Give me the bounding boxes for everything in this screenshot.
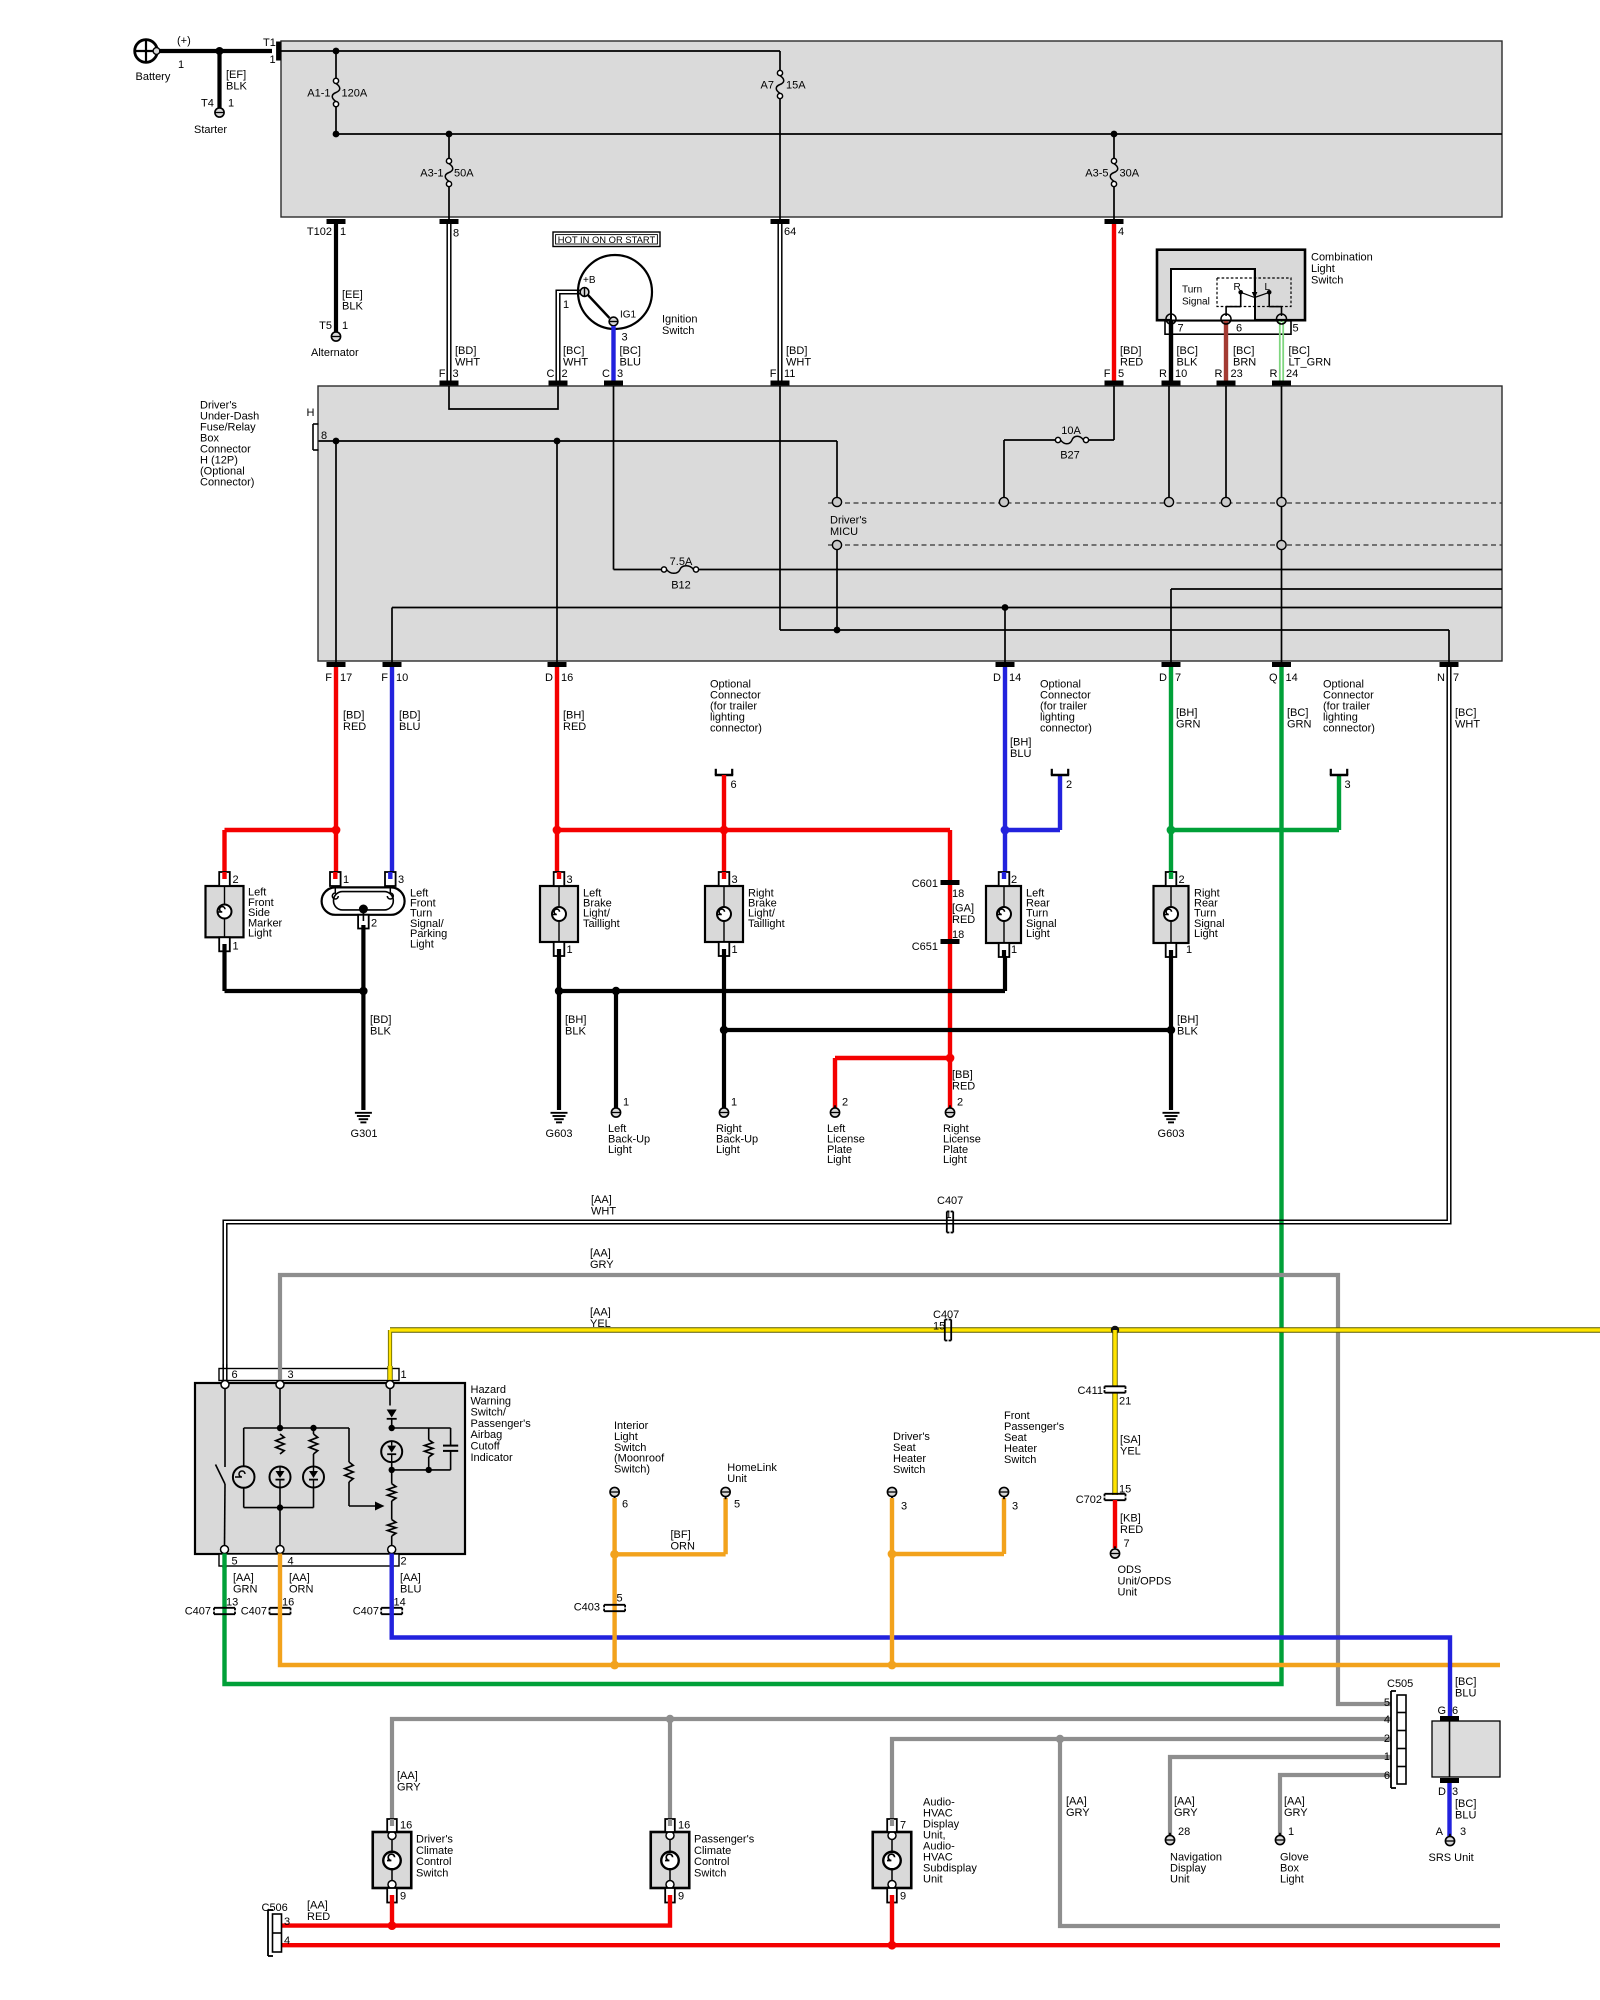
wire [BD] WHT F11 [777,224,779,381]
svg-text:[BD]: [BD] [786,345,807,357]
svg-text:RED: RED [1120,1524,1143,1536]
diode D3 [387,1410,397,1418]
hazard switch connector top [219,1369,399,1381]
svg-text:Light: Light [827,1154,851,1166]
connector terminal 4 [1105,219,1124,224]
svg-text:LT_GRN: LT_GRN [1289,357,1332,369]
svg-text:3: 3 [732,874,738,886]
svg-text:[BD]: [BD] [343,710,364,722]
svg-text:C601: C601 [912,878,938,890]
svg-text:1: 1 [401,1369,407,1381]
svg-text:Q: Q [1269,672,1278,684]
left front turn signal/parking light [322,887,405,914]
svg-text:C407: C407 [241,1606,267,1618]
svg-text:Combination: Combination [1311,252,1373,264]
svg-text:Ignition: Ignition [662,314,697,326]
svg-text:ORN: ORN [289,1584,314,1596]
svg-text:GRY: GRY [590,1259,614,1271]
svg-text:16: 16 [282,1597,294,1609]
wire R24 to Q14 [1281,386,1283,662]
wire [AA] ORN pin4 [278,1554,282,1567]
svg-text:[BH]: [BH] [1010,737,1031,749]
wire [AA] GRY to right edge [1060,1739,1500,1926]
wire D14/F10 branch [392,607,1502,609]
wire [BC] BLU IG1 [611,326,615,381]
svg-text:[AA]: [AA] [397,1770,418,1782]
wire [BD] BLK ground G301 [361,925,365,1110]
svg-text:2: 2 [401,1556,407,1568]
transistor collector-emitter [391,1501,393,1520]
svg-text:18: 18 [952,929,964,941]
svg-text:2: 2 [1179,874,1185,886]
svg-text:SRS Unit: SRS Unit [1429,1852,1474,1864]
connector F 5 [1105,381,1124,386]
svg-text:Light: Light [943,1154,967,1166]
connector T102 1 [327,219,346,224]
svg-text:C407: C407 [353,1606,379,1618]
svg-text:[BD]: [BD] [455,345,476,357]
hazard warning switch box [195,1383,465,1554]
left license plate light [830,1108,839,1117]
SRS coupler box [1432,1721,1500,1777]
svg-text:Starter: Starter [194,124,227,136]
svg-text:R: R [1270,368,1278,380]
svg-text:Passenger's: Passenger's [694,1834,755,1846]
connector C407 1 [946,1212,948,1233]
wire [BD] RED F5 [1112,224,1116,381]
wire red to license lights [948,830,952,880]
svg-text:6: 6 [1452,1705,1458,1717]
svg-text:6: 6 [232,1369,238,1381]
svg-text:3: 3 [567,874,573,886]
connector F 11 [771,381,790,386]
svg-text:BLU: BLU [1455,1810,1476,1822]
svg-text:2: 2 [562,368,568,380]
svg-text:50A: 50A [454,168,474,180]
svg-text:2: 2 [1384,1733,1390,1745]
LED D1 [270,1467,291,1488]
svg-text:13: 13 [226,1597,238,1609]
connector shell 7-6-5 [1165,321,1291,334]
svg-text:3: 3 [1012,1501,1018,1513]
svg-text:Climate: Climate [694,1845,731,1857]
svg-text:BLU: BLU [620,357,641,369]
svg-text:9: 9 [678,1891,684,1903]
optional connector 6 [715,774,733,777]
wire [BC] WHT pin 6 stub [222,1364,224,1381]
svg-text:T5: T5 [319,320,332,332]
svg-text:1: 1 [342,320,348,332]
connector F 3 [440,381,459,386]
svg-text:1: 1 [340,226,346,238]
wire [BB] RED [948,944,952,1058]
wire [BF] ORN [612,1498,616,1665]
connector R 10 [1162,381,1181,386]
svg-text:1: 1 [567,944,573,956]
svg-text:120A: 120A [342,88,368,100]
svg-text:Driver's: Driver's [416,1834,453,1846]
connector F 10 [383,662,402,667]
wire to D16 [556,441,558,662]
svg-text:BLK: BLK [565,1026,586,1038]
svg-text:15A: 15A [786,80,806,92]
svg-text:3: 3 [453,368,459,380]
svg-text:G: G [1437,1705,1446,1717]
wire yellow pin 1 stub [387,1366,392,1380]
wire right brake ground [722,956,726,1108]
svg-text:3: 3 [284,1916,290,1928]
svg-text:3: 3 [1452,1786,1458,1798]
LED D4 [381,1441,402,1462]
svg-text:[BB]: [BB] [952,1069,973,1081]
hazard pin circles top [221,1381,229,1389]
svg-text:3: 3 [622,332,628,344]
wire R23 to MICU [1225,386,1227,497]
wire to F17 [335,441,337,662]
svg-text:C403: C403 [574,1602,600,1614]
svg-text:Passenger's: Passenger's [471,1418,532,1430]
left rear turn signal light [986,886,1021,943]
svg-text:Light: Light [716,1144,740,1156]
combination light switch [1157,250,1305,321]
svg-text:F: F [439,368,446,380]
svg-text:Light: Light [1311,263,1335,275]
connector D 3 [1440,1778,1459,1783]
wire red to right brake [722,775,726,878]
svg-text:[BC]: [BC] [1177,345,1198,357]
svg-text:28: 28 [1178,1826,1190,1838]
svg-text:9: 9 [900,1891,906,1903]
turn signal switch block [1171,269,1255,321]
svg-text:G603: G603 [546,1128,573,1140]
svg-text:[AA]: [AA] [591,1194,612,1206]
svg-text:1: 1 [270,54,276,66]
wire [GA] RED [948,885,952,939]
driver's climate control switch [373,1832,412,1888]
svg-text:18: 18 [952,888,964,900]
fuse A3-1 50A [446,131,453,138]
svg-text:Airbag: Airbag [471,1429,503,1441]
svg-text:5: 5 [1293,323,1299,335]
svg-text:GRN: GRN [233,1584,258,1596]
node yellow junction [1111,1326,1119,1334]
svg-text:GRN: GRN [1287,719,1312,731]
svg-text:[BC]: [BC] [1455,707,1476,719]
wire [BD] RED F17 [334,667,338,878]
svg-text:7: 7 [1178,323,1184,335]
svg-text:Cutoff: Cutoff [471,1441,501,1453]
svg-text:D: D [545,672,553,684]
svg-text:4: 4 [1384,1714,1390,1726]
svg-text:Alternator: Alternator [311,347,359,359]
wire R contact to pin 6 [1240,294,1242,307]
battery [135,40,158,63]
svg-text:YEL: YEL [590,1318,611,1330]
connector D 7 [1162,662,1181,667]
svg-text:R: R [1159,368,1167,380]
svg-text:RED: RED [343,721,366,733]
svg-text:Climate: Climate [416,1845,453,1857]
svg-text:3: 3 [901,1501,907,1513]
svg-text:2: 2 [233,874,239,886]
svg-text:A: A [1436,1826,1444,1838]
driver's MICU dashed [828,502,1502,504]
svg-text:3: 3 [617,368,623,380]
svg-text:Switch: Switch [694,1867,726,1879]
MICU circles [832,497,841,506]
svg-text:WHT: WHT [455,357,480,369]
svg-text:BLK: BLK [342,301,363,313]
svg-text:Light: Light [410,938,434,950]
ground G603 right [1163,1112,1180,1114]
capacitor C1 [450,1428,452,1446]
svg-text:Indicator: Indicator [471,1452,514,1464]
svg-text:Switch: Switch [1311,275,1343,287]
svg-text:Taillight: Taillight [583,918,620,930]
svg-text:11: 11 [784,368,795,380]
svg-text:Unit: Unit [727,1473,747,1485]
svg-text:5: 5 [232,1556,238,1568]
connector F 17 [327,662,346,667]
svg-text:Control: Control [416,1856,451,1868]
svg-text:Signal: Signal [1182,297,1210,308]
svg-text:Unit: Unit [1170,1873,1190,1885]
svg-text:[BC]: [BC] [563,345,584,357]
wire [SA] YEL [1112,1330,1117,1386]
ignition switch [578,255,652,329]
fuse A7 15A [779,51,781,70]
wire red brake bus [557,828,950,832]
svg-text:+B: +B [583,275,596,286]
terminal +B [580,288,589,297]
connector C411 21 [1105,1385,1126,1387]
svg-text:[AA]: [AA] [590,1248,611,1260]
svg-text:5: 5 [617,1593,623,1605]
wire [AA] BLU route [392,1566,1450,1716]
wire [EE] BLK to alternator [334,224,338,332]
connector Q 14 [1272,662,1291,667]
svg-text:Driver's: Driver's [830,515,867,527]
svg-text:F: F [325,672,332,684]
svg-text:2: 2 [371,918,377,930]
svg-text:[BC]: [BC] [1455,1798,1476,1810]
svg-text:A3-1: A3-1 [420,168,443,180]
wire [BD] WHT F3 [446,224,448,381]
svg-text:2: 2 [1011,874,1017,886]
svg-text:6: 6 [731,779,737,791]
wire red to side marker [225,828,339,832]
svg-text:ORN: ORN [671,1541,696,1553]
node T1 junction [333,48,340,55]
svg-text:4: 4 [288,1556,294,1568]
svg-text:GRY: GRY [1174,1807,1198,1819]
svg-text:15: 15 [933,1321,945,1333]
svg-text:F: F [381,672,388,684]
svg-text:7: 7 [1124,1538,1130,1550]
svg-text:[BH]: [BH] [565,1014,586,1026]
svg-text:WHT: WHT [563,357,588,369]
resistor R1 [276,1434,284,1454]
wire [AA] GRY audio bus [892,1739,1391,1819]
svg-text:Warning: Warning [471,1395,512,1407]
connector T1 [276,42,281,61]
svg-text:connector): connector) [710,723,762,735]
svg-text:D: D [1438,1786,1446,1798]
svg-text:3: 3 [398,874,404,886]
svg-text:BLK: BLK [370,1026,391,1038]
svg-text:7: 7 [900,1820,906,1832]
svg-text:Switch: Switch [416,1867,448,1879]
svg-text:T4: T4 [201,98,214,110]
svg-text:GRY: GRY [1066,1807,1090,1819]
svg-text:BLU: BLU [399,721,420,733]
svg-text:23: 23 [1231,368,1243,380]
under-hood fuse/relay box [281,41,1502,217]
svg-text:C651: C651 [912,941,938,953]
contact L [1267,290,1272,295]
svg-text:BLK: BLK [1177,1026,1198,1038]
svg-text:1: 1 [1186,944,1192,956]
svg-text:[BH]: [BH] [1176,707,1197,719]
contact R [1238,290,1243,295]
connector C601 18 [941,880,960,885]
svg-text:[AA]: [AA] [1066,1796,1087,1808]
wire battery to T1 [159,49,272,53]
svg-text:16: 16 [400,1820,412,1832]
wire gray pin 3 stub [278,1366,282,1380]
wire [AA] YEL hazard [388,1330,392,1366]
svg-text:10: 10 [396,672,408,684]
svg-text:[EF]: [EF] [226,69,246,81]
svg-text:[GA]: [GA] [952,903,974,915]
connector terminal 64 [771,219,790,224]
wire battery bus [281,50,780,52]
hazard pin1 branch [389,1389,391,1406]
wire [BC] WHT N7 [227,667,1451,1368]
connector C702 15 [1105,1493,1126,1495]
connector C407 15 [944,1320,946,1341]
fuse 7.5A B12 [613,386,615,570]
right rear turn signal light [1154,886,1189,943]
svg-text:C505: C505 [1387,1678,1413,1690]
svg-text:4: 4 [284,1935,290,1947]
wire [BH] RED D16 [555,667,559,878]
svg-text:Unit: Unit [923,1873,943,1885]
right back-up light [719,1108,728,1117]
svg-text:BLU: BLU [1455,1688,1476,1700]
svg-text:RED: RED [952,1081,975,1093]
svg-text:C: C [602,368,610,380]
svg-text:[EE]: [EE] [342,289,363,301]
wire [AA] GRN pin5 [222,1554,226,1569]
svg-text:[BD]: [BD] [1120,345,1141,357]
svg-text:5: 5 [1384,1697,1390,1709]
svg-text:C407: C407 [933,1309,959,1321]
wire [BH] BLK grounds [557,956,561,1110]
svg-text:7: 7 [1453,672,1459,684]
svg-text:15: 15 [1119,1484,1131,1496]
wire orange seat heaters [890,1498,894,1665]
optional connector 3 [1330,774,1348,777]
svg-text:[AA]: [AA] [233,1572,254,1584]
LED D2 [303,1467,324,1488]
wire [AA] BLU pin2 [390,1554,394,1567]
svg-text:Switch: Switch [662,325,694,337]
connector C 3 [604,381,623,386]
svg-text:Taillight: Taillight [748,918,785,930]
wire [KB] RED [1113,1500,1117,1548]
svg-text:1: 1 [343,874,349,886]
svg-text:Connector): Connector) [200,477,254,489]
svg-text:B12: B12 [671,580,691,592]
svg-text:[SA]: [SA] [1120,1434,1141,1446]
svg-text:7.5A: 7.5A [670,556,693,568]
svg-text:Switch/: Switch/ [471,1407,507,1419]
svg-text:6: 6 [622,1499,628,1511]
connector terminal 8 [440,219,459,224]
svg-text:IG1: IG1 [620,310,637,321]
svg-text:Light: Light [1026,928,1050,940]
svg-text:BLK: BLK [1177,357,1198,369]
svg-text:YEL: YEL [1120,1446,1141,1458]
svg-text:4: 4 [1118,226,1124,238]
wire [AA] GRY glove box [1280,1775,1391,1835]
svg-text:3: 3 [1460,1826,1466,1838]
connector C 2 [549,381,568,386]
svg-text:G301: G301 [351,1128,378,1140]
svg-text:14: 14 [394,1597,406,1609]
svg-text:D: D [993,672,1001,684]
ground G301 [355,1112,372,1114]
wire [BH] BLU D14 [1003,667,1007,878]
connector D 16 [548,662,567,667]
svg-text:[BF]: [BF] [671,1529,691,1541]
svg-text:MICU: MICU [830,526,858,538]
svg-text:10A: 10A [1061,425,1081,437]
svg-text:64: 64 [784,226,796,238]
svg-text:[AA]: [AA] [400,1572,421,1584]
svg-text:16: 16 [678,1820,690,1832]
wire D7 branch [1171,588,1502,590]
svg-text:14: 14 [1009,672,1021,684]
wire [BC] BRN pin 6 [1224,321,1228,381]
svg-text:5: 5 [734,1499,740,1511]
svg-text:BRN: BRN [1233,357,1256,369]
wire H8 bus [319,440,838,442]
svg-text:RED: RED [952,914,975,926]
wire to starter [217,51,221,108]
svg-text:30A: 30A [1120,168,1140,180]
pin circles [1166,314,1176,324]
svg-text:[BC]: [BC] [1455,1676,1476,1688]
svg-text:[AA]: [AA] [1284,1796,1305,1808]
hazard bottom rail [244,1507,314,1509]
svg-text:BLU: BLU [1010,748,1031,760]
terminal IG1 [609,317,618,326]
svg-text:[BD]: [BD] [399,710,420,722]
svg-text:[BH]: [BH] [563,710,584,722]
svg-text:Switch): Switch) [614,1464,650,1476]
wire F3-C2 link [449,386,558,409]
svg-text:[KB]: [KB] [1120,1513,1141,1525]
svg-text:1: 1 [233,941,239,953]
wire to R4 and capacitor [392,1427,451,1429]
svg-text:RED: RED [307,1911,330,1923]
resistor R2 [313,1428,315,1434]
wire [BC] BLU to SRS [1447,1783,1451,1836]
wire [AA] GRY climate bus [392,1719,1391,1819]
svg-text:9: 9 [400,1891,406,1903]
